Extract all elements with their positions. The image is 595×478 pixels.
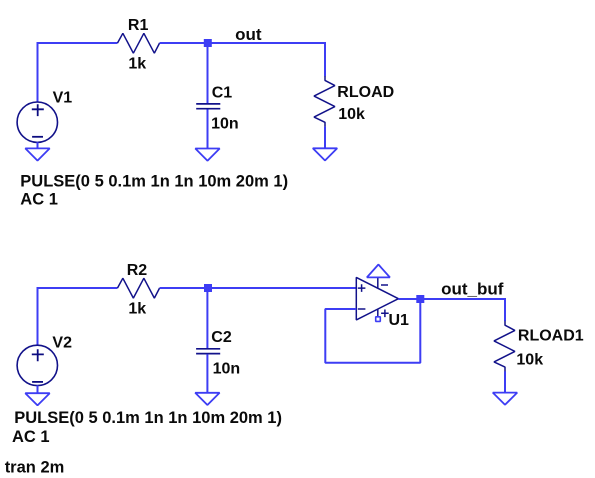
- ground (C1): [195, 149, 219, 161]
- V2 plus mark: [32, 349, 44, 361]
- svg-text:10k: 10k: [338, 106, 365, 123]
- ground flag on V- (points up): [367, 265, 390, 278]
- U1 V+ pin stem: [377, 309, 379, 317]
- U1 V- minus mark: [381, 284, 388, 286]
- ground (RLOAD): [313, 148, 337, 160]
- svg-text:AC 1: AC 1: [20, 190, 58, 208]
- svg-text:R2: R2: [127, 262, 148, 279]
- svg-text:10k: 10k: [516, 352, 543, 369]
- svg-text:out_buf: out_buf: [441, 280, 504, 299]
- resistor R2: [118, 278, 160, 298]
- wire R2 to op-amp: [160, 287, 357, 289]
- junction node (R2/C2): [204, 284, 212, 292]
- svg-text:RLOAD1: RLOAD1: [518, 327, 584, 344]
- capacitor C1: [196, 104, 220, 109]
- svg-text:1k: 1k: [128, 300, 146, 317]
- capacitor C2: [196, 349, 220, 354]
- wire V2 top vertical: [37, 288, 39, 346]
- wire C1 to ground: [207, 109, 209, 148]
- wire C2 to ground: [206, 354, 208, 393]
- resistor RLOAD1: [494, 321, 515, 372]
- wire junction to C2: [206, 288, 208, 349]
- svg-text:10n: 10n: [213, 360, 241, 377]
- svg-text:10n: 10n: [211, 116, 239, 133]
- V2 minus mark: [32, 381, 43, 383]
- svg-text:R1: R1: [128, 17, 149, 34]
- wire RLOAD1 vertical: [504, 298, 506, 321]
- U1 V+ unconnected pin square: [376, 317, 381, 322]
- op-amp U1 body: [356, 277, 398, 320]
- voltage source V2: [17, 345, 57, 385]
- voltage source V1: [17, 102, 57, 142]
- wire bottom horizontal to R2: [37, 287, 118, 289]
- svg-text:V1: V1: [53, 90, 73, 107]
- wire top horizontal to R1: [37, 42, 118, 44]
- svg-text:RLOAD: RLOAD: [337, 84, 394, 101]
- wire V2 to ground: [37, 385, 39, 393]
- junction node out_buf: [416, 295, 424, 303]
- svg-text:C1: C1: [212, 85, 233, 102]
- output wire U1 to RLOAD1: [398, 298, 505, 300]
- feedback wire (-in loop): [325, 299, 420, 363]
- svg-text:C2: C2: [211, 329, 232, 346]
- svg-text:1k: 1k: [128, 56, 146, 73]
- resistor R1: [118, 33, 160, 53]
- wire V1 to ground: [37, 142, 39, 148]
- svg-text:out: out: [235, 25, 262, 44]
- wire junction to C1: [207, 43, 209, 104]
- U1 V+ plus mark: [381, 310, 389, 318]
- ground (V2): [25, 393, 49, 405]
- ground (RLOAD1): [493, 393, 517, 405]
- wire R1 to RLOAD corner: [160, 42, 325, 44]
- V1 plus mark: [32, 104, 44, 116]
- svg-text:U1: U1: [389, 312, 410, 329]
- svg-text:PULSE(0 5 0.1m 1n 1n 10m 20m 1: PULSE(0 5 0.1m 1n 1n 10m 20m 1): [14, 409, 282, 427]
- resistor RLOAD: [314, 76, 335, 127]
- wire RLOAD to ground: [324, 127, 326, 149]
- U1 plus input mark: [358, 284, 366, 292]
- junction node out: [204, 39, 212, 47]
- U1 V- pin stem: [377, 277, 379, 288]
- svg-text:PULSE(0 5 0.1m 1n 1n 10m 20m 1: PULSE(0 5 0.1m 1n 1n 10m 20m 1): [20, 172, 288, 190]
- V1 minus mark: [32, 136, 43, 138]
- ground (C2): [195, 393, 219, 405]
- wire V1 top vertical: [37, 43, 39, 102]
- svg-text:V2: V2: [52, 334, 72, 351]
- ground (V1): [25, 148, 49, 160]
- wire RLOAD1 to ground: [504, 371, 506, 392]
- svg-text:AC 1: AC 1: [12, 428, 50, 446]
- U1 minus input mark: [358, 308, 366, 310]
- svg-text:tran 2m: tran 2m: [5, 459, 65, 477]
- wire RLOAD vertical: [324, 42, 326, 76]
